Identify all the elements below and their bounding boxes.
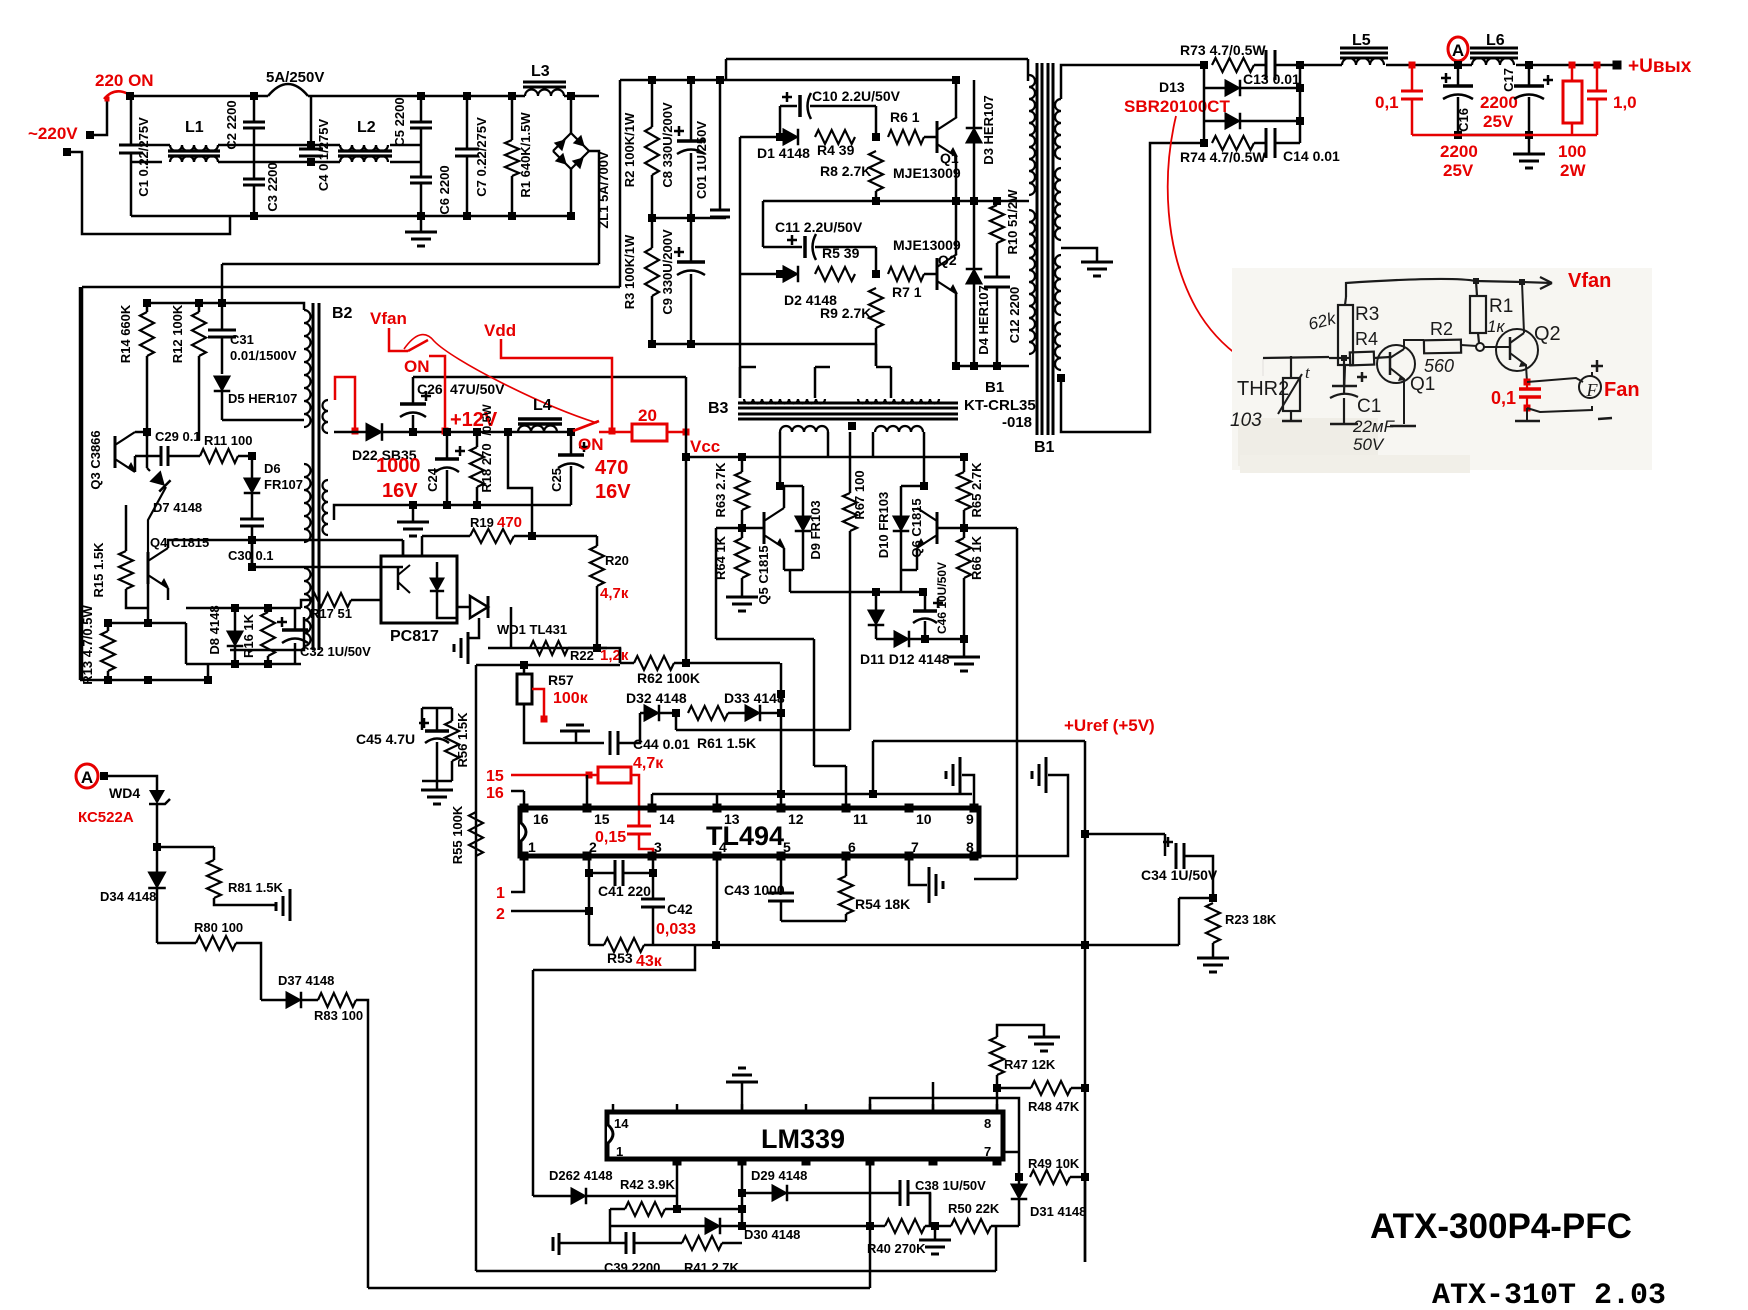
svg-text:D30 4148: D30 4148: [744, 1227, 800, 1242]
transistor Q6 C1815: [936, 512, 939, 544]
svg-text:R20: R20: [605, 553, 629, 568]
red capacitor 0.1 at output: [1409, 62, 1416, 69]
wire pin2: [511, 910, 589, 913]
resistor R14 660K: [146, 303, 149, 312]
transformer B1 primary winding: [1029, 75, 1035, 195]
wire fan top rail with arrow: [1346, 279, 1552, 297]
svg-text:3: 3: [654, 839, 662, 855]
svg-text:C42: C42: [667, 901, 693, 917]
wire long row y945 to C34/R23: [716, 944, 1179, 947]
wire Q5 base row: [716, 527, 764, 530]
wire Q4 base/emitter: [147, 584, 150, 623]
svg-text:MJE13009: MJE13009: [893, 165, 961, 181]
svg-text:0,1: 0,1: [1375, 93, 1399, 112]
resistor R41 2.7K: [660, 1242, 682, 1245]
svg-text:TL494: TL494: [706, 821, 784, 851]
svg-text:A: A: [81, 768, 93, 787]
capacitor C8 330U/200V: [690, 80, 693, 141]
wire THR2 to base node: [1263, 357, 1329, 358]
resistor R57 100k: [517, 674, 532, 704]
LM339 top pin stubs: [612, 1104, 615, 1112]
resistor R6 1: [888, 130, 924, 144]
wire emitter rail: [790, 591, 923, 594]
wire mid node y201: [763, 200, 1025, 203]
resistor R15 1.5K: [125, 505, 128, 551]
wire HV- staircase to B3: [875, 344, 878, 366]
resistor R81 1.5K: [213, 847, 216, 860]
wire pin12 feed: [780, 663, 783, 808]
svg-text:C29 0.1: C29 0.1: [155, 429, 201, 444]
svg-text:1к: 1к: [1487, 317, 1505, 336]
resistor R12 100K: [198, 303, 201, 312]
wire R61 bypass row: [675, 713, 678, 730]
diode D5 HER107: [214, 376, 231, 391]
svg-text:B1: B1: [1034, 439, 1055, 456]
resistor R18 270/0.5W: [476, 432, 479, 447]
svg-text:R11 100: R11 100: [204, 433, 252, 448]
rotated ground near pin9: [973, 794, 976, 808]
wire Vcc rail of driver: [686, 456, 964, 459]
wire branch to R81: [153, 843, 161, 851]
svg-text:22мF: 22мF: [1352, 417, 1396, 436]
svg-text:7: 7: [911, 839, 919, 855]
resistor R56 1.5K: [451, 708, 454, 721]
svg-text:4,7к: 4,7к: [600, 585, 629, 602]
svg-text:0,15: 0,15: [595, 829, 626, 846]
svg-text:Fan: Fan: [1604, 379, 1640, 401]
ground rotated right of R81: [276, 889, 290, 921]
svg-text:C26: C26: [417, 381, 443, 397]
svg-text:R6 1: R6 1: [890, 109, 920, 125]
svg-text:C1 0.22/275V: C1 0.22/275V: [136, 117, 151, 197]
resistor R1 640K/1.5W: [511, 96, 514, 140]
svg-text:D10 FR103: D10 FR103: [876, 492, 891, 558]
svg-text:C44 0.01: C44 0.01: [633, 736, 690, 752]
svg-text:R1: R1: [1489, 296, 1513, 317]
svg-text:R4: R4: [1355, 329, 1378, 349]
svg-text:Vfan: Vfan: [1568, 270, 1611, 292]
red curve from SBR20100CT to THR2: [1168, 116, 1288, 382]
diode D6 FR107: [251, 456, 254, 478]
svg-text:8: 8: [984, 1116, 991, 1131]
wire secondary bottom return: [1061, 143, 1204, 432]
wire Q6 collector/emitter: [916, 548, 919, 570]
diode D7 4148: [146, 432, 149, 468]
wire mid rail y218: [652, 217, 726, 220]
red curved wire Vfan to ON switch no.2: [404, 335, 597, 423]
svg-text:5A/250V: 5A/250V: [266, 69, 324, 86]
svg-text:C4 0.1/275V: C4 0.1/275V: [316, 119, 331, 192]
capacitor C44 0.01: [609, 731, 612, 755]
transistor Q1 (hand-drawn): [1377, 345, 1415, 383]
transformer B3 secondary winding bumps: [780, 426, 828, 432]
shunt regulator WD1 TL431: [457, 606, 470, 609]
resistor R50 22K: [925, 1225, 951, 1228]
ground below C5/C6: [420, 216, 423, 232]
transformer B1 secondary winding: [1055, 99, 1061, 159]
svg-text:R53: R53: [607, 950, 633, 966]
svg-text:2200: 2200: [1440, 142, 1478, 161]
svg-text:R49 10K: R49 10K: [1028, 1156, 1080, 1171]
svg-text:R14 660K: R14 660K: [118, 304, 133, 363]
capacitor C13 0.01: [1254, 64, 1266, 67]
svg-text:C12 2200: C12 2200: [1007, 287, 1022, 343]
resistor R22 1.2k: [530, 641, 568, 655]
svg-text:R56 1.5K: R56 1.5K: [455, 712, 470, 768]
svg-text:9: 9: [966, 811, 974, 827]
wire HV+ rail y80: [620, 79, 956, 82]
svg-text:R22: R22: [570, 648, 594, 663]
capacitor C16 2200/25V: [1454, 61, 1462, 69]
svg-text:КС522А: КС522А: [78, 809, 134, 826]
svg-text:100к: 100к: [553, 690, 589, 707]
wire C45/R56 loop: [421, 708, 424, 730]
svg-text:50V: 50V: [1353, 435, 1385, 454]
fan motor symbol: [1579, 376, 1601, 398]
svg-text:D262 4148: D262 4148: [549, 1168, 613, 1183]
resistor R10 51/2W: [996, 201, 999, 205]
svg-text:220 ON: 220 ON: [95, 71, 154, 90]
svg-text:R19: R19: [470, 515, 494, 530]
diode D12 4148: [876, 638, 894, 641]
capacitor C1 0.22/275V: [130, 96, 133, 145]
capacitor C1 22uF 50V (hand-drawn): [1343, 358, 1345, 386]
capacitor C46 10U/50V: [924, 592, 927, 611]
resistor R54 18K: [845, 856, 848, 876]
svg-text:L5: L5: [1352, 32, 1371, 49]
svg-text:D1 4148: D1 4148: [757, 145, 810, 161]
resistor R49 10K: [1030, 1170, 1070, 1184]
svg-text:R67 100: R67 100: [852, 470, 867, 519]
svg-text:R63 2.7K: R63 2.7K: [713, 462, 728, 518]
red capacitor 1.0 at output: [1594, 62, 1601, 69]
svg-text:C1: C1: [1357, 396, 1381, 417]
svg-text:D9 FR103: D9 FR103: [808, 500, 823, 559]
svg-text:16V: 16V: [382, 480, 418, 502]
resistor R80 100: [157, 942, 196, 945]
bridge rectifier ZL1 5A/700V: [570, 96, 573, 133]
wire Vcc vertical: [685, 432, 688, 663]
svg-text:R16 1K: R16 1K: [241, 613, 256, 658]
resistor R65 2.7K: [963, 457, 966, 472]
svg-text:B1: B1: [985, 379, 1004, 396]
svg-text:Vdd: Vdd: [484, 321, 516, 340]
svg-text:FR107: FR107: [264, 477, 303, 492]
wire standby gnd rail: [398, 504, 571, 507]
svg-text:R61 1.5K: R61 1.5K: [697, 735, 756, 751]
svg-text:R73 4.7/0.5W: R73 4.7/0.5W: [1180, 42, 1266, 58]
transistor Q3 C3866: [114, 436, 117, 468]
svg-text:D3 HER107: D3 HER107: [981, 95, 996, 164]
transistor Q1 MJE13009: [936, 121, 939, 153]
svg-text:R3 100K/1W: R3 100K/1W: [622, 234, 637, 309]
svg-text:D37 4148: D37 4148: [278, 973, 334, 988]
resistor R47 12K: [996, 1075, 999, 1112]
resistor R67 100: [849, 432, 852, 493]
wire pin3 to R49 row: [870, 1098, 1019, 1177]
svg-text:D4 HER107: D4 HER107: [976, 285, 991, 354]
wire mid segments to C4/L2: [254, 144, 340, 147]
wire bottom rows LM339: [869, 1161, 872, 1288]
resistor R19 470: [470, 529, 514, 543]
wire top rail y96: [130, 95, 268, 98]
wire from +12V to R19 node: [508, 432, 532, 536]
wire R22 node down-left: [619, 648, 622, 663]
wire pin stub x933 up: [932, 1082, 935, 1112]
svg-text:15: 15: [594, 811, 610, 827]
svg-text:12: 12: [788, 811, 804, 827]
svg-text:D7 4148: D7 4148: [153, 500, 202, 515]
resistor R23 18K: [1206, 903, 1220, 943]
output terminal +Uvyh: [1613, 61, 1622, 70]
svg-text:ATX-310T 2.03: ATX-310T 2.03: [1432, 1279, 1666, 1310]
wire R22 row: [488, 647, 607, 650]
wire to B1 primary top: [726, 58, 1028, 61]
resistor R40 270K: [885, 1219, 925, 1233]
svg-text:C45 4.7U: C45 4.7U: [356, 731, 415, 747]
capacitor C38 1U/50V: [899, 1180, 902, 1206]
diode D3 HER107: [973, 80, 976, 128]
transistor Q5 C1815: [763, 512, 766, 544]
wire pin1: [511, 856, 524, 892]
node A marker (left): [76, 764, 98, 788]
resistor R48 47K: [997, 1087, 1031, 1090]
red load resistor 100 2W: [1569, 62, 1576, 69]
red output bottom rail: [1412, 134, 1597, 137]
svg-text:R57: R57: [548, 672, 574, 688]
svg-text:R54 18K: R54 18K: [855, 896, 910, 912]
svg-text:ON: ON: [578, 435, 604, 454]
node A marker (output): [1448, 37, 1468, 61]
resistor R20 4.7k: [596, 536, 599, 546]
capacitor C34 1U/50V: [1085, 833, 1165, 836]
svg-text:C43 1000: C43 1000: [724, 882, 785, 898]
capacitor C6 2200: [410, 176, 432, 179]
svg-text:ZL1 5A/700V: ZL1 5A/700V: [596, 151, 611, 229]
wire C34 bottom row: [1179, 897, 1213, 900]
svg-text:R65 2.7K: R65 2.7K: [969, 462, 984, 518]
svg-text:Q2: Q2: [1534, 323, 1561, 345]
capacitor C3 2200: [243, 178, 265, 181]
svg-text:C01 1U/250V: C01 1U/250V: [694, 121, 709, 199]
svg-text:Vcc: Vcc: [690, 437, 720, 456]
svg-text:16V: 16V: [595, 481, 631, 503]
svg-text:C6 2200: C6 2200: [437, 165, 452, 214]
svg-text:R3: R3: [1355, 304, 1379, 325]
ground loop at R47 top: [997, 1025, 1044, 1037]
resistor R62 100K: [620, 662, 634, 665]
capacitor C42 0.033: [652, 856, 655, 899]
svg-text:C2 2200: C2 2200: [224, 100, 239, 149]
svg-text:R5 39: R5 39: [822, 245, 860, 261]
capacitor C2 2200: [253, 96, 256, 122]
transistor Q4 C1815: [147, 552, 150, 584]
svg-text:C34 1U/50V: C34 1U/50V: [1141, 867, 1218, 883]
svg-text:D13: D13: [1159, 79, 1185, 95]
svg-text:0,033: 0,033: [656, 921, 696, 938]
svg-text:B2: B2: [332, 305, 353, 322]
capacitor C17 2200/25V: [1525, 61, 1533, 69]
svg-text:103: 103: [1230, 410, 1262, 431]
svg-text:R13 4.7/0.5W: R13 4.7/0.5W: [80, 605, 95, 685]
wire B2 right winding to D22: [334, 431, 366, 434]
svg-text:WD1 TL431: WD1 TL431: [497, 622, 567, 637]
svg-text:R41 2.7K: R41 2.7K: [684, 1260, 740, 1275]
svg-text:L2: L2: [357, 119, 376, 136]
diode D2 4148: [776, 270, 784, 278]
diode D10 FR103: [901, 485, 924, 488]
svg-text:2W: 2W: [1560, 161, 1586, 180]
diode D1 4148: [776, 133, 784, 141]
wire B3 secondary to driver: [779, 432, 782, 486]
diode D31 4148: [1018, 1177, 1021, 1184]
svg-text:D5 HER107: D5 HER107: [228, 391, 297, 406]
diode D22 SB35: [366, 423, 382, 441]
wire x1017 from Q6 base down: [1016, 528, 1019, 879]
wire B2 left winding top: [301, 303, 304, 310]
svg-text:16: 16: [533, 811, 549, 827]
capacitor C4 0.1/275V: [310, 96, 313, 149]
scanned paper tint: [1232, 268, 1652, 470]
input terminal bottom: [63, 148, 71, 156]
svg-text:4,7к: 4,7к: [633, 755, 664, 772]
svg-text:Q3 C3866: Q3 C3866: [88, 430, 103, 489]
svg-text:1: 1: [528, 839, 536, 855]
IC U1 TL494: [520, 808, 979, 856]
wire R19 input: [421, 536, 424, 556]
wire C26 top loop to Vcc: [413, 376, 686, 379]
svg-text:6: 6: [848, 839, 856, 855]
wire Q4 collector to PC817: [402, 540, 405, 556]
svg-text:D29 4148: D29 4148: [751, 1168, 807, 1183]
svg-text:14: 14: [659, 811, 675, 827]
capacitor C01 1U/250V: [719, 80, 722, 210]
svg-text:C13 0.01: C13 0.01: [1243, 71, 1300, 87]
capacitor C32 1U/50V: [294, 608, 297, 630]
svg-text:D6: D6: [264, 461, 281, 476]
svg-text:16: 16: [486, 785, 504, 802]
svg-text:1: 1: [496, 885, 505, 902]
ground at output filter: [1458, 134, 1529, 137]
capacitor C12 2200: [984, 276, 1010, 279]
svg-text:R81 1.5K: R81 1.5K: [228, 880, 284, 895]
svg-text:R12 100K: R12 100K: [170, 304, 185, 363]
resistor R2 100K/1W: [651, 80, 654, 127]
svg-text:R47 12K: R47 12K: [1004, 1057, 1056, 1072]
resistor R7 1: [888, 267, 924, 281]
svg-text:-018: -018: [1002, 414, 1032, 431]
wire pin7 to R49: [1003, 1151, 1019, 1154]
resistor R55 100K on x476: [469, 812, 483, 856]
svg-text:R42 3.9K: R42 3.9K: [620, 1177, 676, 1192]
capacitor C14 0.01: [1254, 142, 1266, 145]
svg-text:8: 8: [966, 839, 974, 855]
svg-text:L3: L3: [531, 63, 550, 80]
diode D4 HER107: [973, 201, 976, 269]
diode D9 FR103: [784, 485, 803, 488]
input terminal top: [86, 131, 94, 139]
wire pin8 ground: [979, 775, 1068, 856]
svg-text:~220V: ~220V: [28, 124, 78, 143]
svg-text:25V: 25V: [1483, 112, 1514, 131]
svg-text:Vfan: Vfan: [370, 309, 407, 328]
transformer B3 core: [738, 402, 958, 405]
svg-text:D8 4148: D8 4148: [207, 605, 222, 654]
ground below R64: [726, 597, 758, 611]
red jumper at B2 right winding: [335, 377, 355, 431]
svg-text:470: 470: [497, 514, 522, 531]
svg-text:R9 2.7K: R9 2.7K: [820, 305, 871, 321]
wire jog row y970: [533, 945, 695, 970]
svg-text:Q5 C1815: Q5 C1815: [756, 545, 771, 604]
svg-text:R48 47K: R48 47K: [1028, 1099, 1080, 1114]
svg-text:R50 22K: R50 22K: [948, 1201, 1000, 1216]
svg-text:25V: 25V: [1443, 161, 1474, 180]
svg-text:C39 2200: C39 2200: [604, 1260, 660, 1275]
TL494 pin numbers: [520, 804, 529, 813]
wire +Uref: [872, 741, 875, 794]
resistor R16 1K: [261, 612, 275, 656]
svg-text:ATX-300P4-PFC: ATX-300P4-PFC: [1370, 1207, 1632, 1246]
svg-text:C8 330U/200V: C8 330U/200V: [660, 102, 675, 188]
wire rows x610: [609, 1209, 612, 1243]
svg-text:100: 100: [1558, 142, 1586, 161]
svg-text:L4: L4: [533, 397, 552, 414]
row y665 to R57: [476, 664, 620, 667]
IC U2 LM339: [607, 1112, 1003, 1159]
resistor R9 2.7K: [869, 288, 883, 328]
svg-text:R4 39: R4 39: [817, 142, 855, 158]
transistor Q2 (hand-drawn): [1496, 329, 1538, 371]
svg-text:Q4 C1815: Q4 C1815: [150, 535, 209, 550]
wire Q6 base row: [937, 527, 1017, 530]
svg-text:C17: C17: [1501, 68, 1516, 92]
resistor R8 2.7K: [869, 151, 883, 191]
svg-text:B3: B3: [708, 400, 729, 417]
svg-text:/0.5W: /0.5W: [480, 404, 494, 436]
svg-text:C32 1U/50V: C32 1U/50V: [300, 644, 371, 659]
svg-text:PC817: PC817: [390, 628, 439, 645]
svg-text:C11 2.2U/50V: C11 2.2U/50V: [775, 219, 863, 235]
wire from EMI to lower-left block: [222, 263, 599, 266]
svg-text:0,1: 0,1: [1491, 388, 1516, 408]
LM339 bottom pin junctions: [673, 1157, 682, 1166]
wire long vertical x476: [475, 665, 478, 1271]
svg-text:D31 4148: D31 4148: [1030, 1204, 1086, 1219]
resistor R66 1K: [957, 538, 971, 578]
capacitor C7 0.22/275V: [466, 96, 469, 149]
svg-text:R66 1K: R66 1K: [969, 535, 984, 580]
transformer B1 primary taps: [1025, 200, 1029, 203]
svg-text:R17 51: R17 51: [310, 606, 352, 621]
wire Q5 emitter: [783, 548, 786, 570]
capacitor C31 0.01/1500V: [221, 303, 224, 330]
capacitor C25 470/16V: [567, 428, 575, 436]
inductor L2 common-mode choke: [340, 145, 388, 151]
resistor R5 39: [815, 267, 855, 281]
svg-text:11: 11: [853, 811, 868, 827]
svg-text:C46 10U/50V: C46 10U/50V: [935, 562, 949, 634]
resistor R13 4.7/0.5W: [107, 623, 110, 631]
svg-text:MJE13009: MJE13009: [893, 237, 961, 253]
transistor Q2 MJE13009: [936, 258, 939, 290]
svg-text:15: 15: [486, 768, 504, 785]
svg-text:R1 640K/1.5W: R1 640K/1.5W: [518, 112, 533, 198]
wire top rail of standby block: [147, 302, 301, 305]
svg-text:47U/50V: 47U/50V: [450, 381, 505, 397]
svg-text:KT-CRL35: KT-CRL35: [964, 397, 1036, 414]
transformer B3 primary winding bumps: [744, 399, 825, 404]
